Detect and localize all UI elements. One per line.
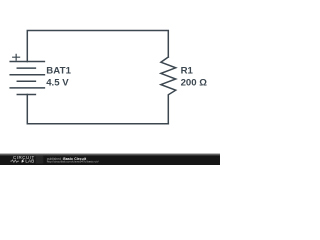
svg-text:R1: R1 xyxy=(181,65,194,76)
svg-text:http://circuitlab.com/c/sxw947: http://circuitlab.com/c/sxw947u/basic-ci… xyxy=(47,160,99,164)
svg-text:BAT1: BAT1 xyxy=(46,65,71,76)
svg-text:200 Ω: 200 Ω xyxy=(181,78,208,89)
svg-text:LAB: LAB xyxy=(25,159,34,164)
svg-text:4.5 V: 4.5 V xyxy=(46,78,69,89)
